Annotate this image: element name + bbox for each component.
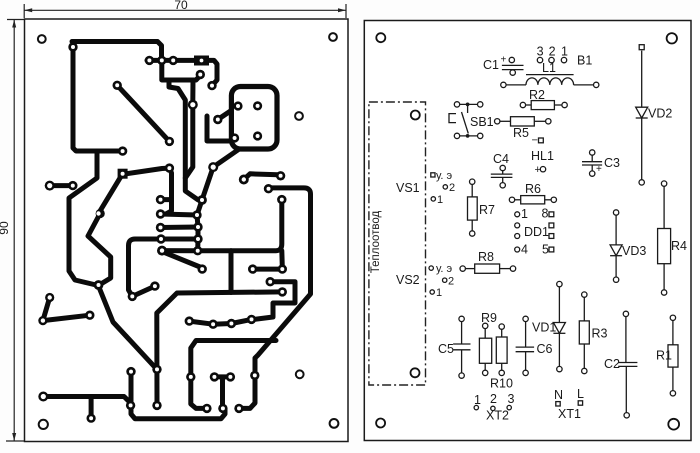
svg-text:1: 1 <box>436 287 442 299</box>
svg-text:Теплоотвод: Теплоотвод <box>370 210 382 273</box>
svg-text:VD3: VD3 <box>622 244 646 258</box>
svg-text:R5: R5 <box>513 126 529 140</box>
svg-text:1: 1 <box>561 45 568 59</box>
svg-text:XT2: XT2 <box>486 409 509 423</box>
svg-text:VD2: VD2 <box>648 107 672 121</box>
svg-text:B1: B1 <box>577 54 592 68</box>
svg-text:VD1: VD1 <box>532 321 556 335</box>
svg-text:HL1: HL1 <box>531 149 554 163</box>
svg-text:у. э: у. э <box>436 170 453 182</box>
svg-text:R10: R10 <box>490 377 513 391</box>
svg-text:R6: R6 <box>525 182 541 196</box>
svg-text:2: 2 <box>549 45 556 59</box>
svg-text:R9: R9 <box>481 311 497 325</box>
svg-text:R2: R2 <box>529 88 545 102</box>
svg-text:R3: R3 <box>592 327 608 341</box>
svg-text:DD1: DD1 <box>524 225 549 239</box>
svg-text:L1: L1 <box>542 61 556 75</box>
svg-text:C2: C2 <box>604 357 620 371</box>
svg-text:2: 2 <box>448 276 454 288</box>
svg-text:R8: R8 <box>478 250 494 264</box>
svg-text:90: 90 <box>0 221 11 235</box>
svg-text:R4: R4 <box>671 239 687 253</box>
svg-text:5: 5 <box>542 243 549 257</box>
svg-text:R7: R7 <box>479 203 495 217</box>
svg-text:VS1: VS1 <box>396 181 420 195</box>
svg-text:C6: C6 <box>537 342 553 356</box>
svg-text:2: 2 <box>449 182 455 194</box>
svg-text:+: + <box>535 164 541 176</box>
svg-text:C4: C4 <box>493 152 509 166</box>
svg-text:+: + <box>596 164 602 175</box>
svg-text:−: − <box>532 135 538 147</box>
svg-text:3: 3 <box>508 392 515 406</box>
svg-text:у. э: у. э <box>436 263 453 275</box>
svg-text:SB1: SB1 <box>470 115 494 129</box>
svg-text:XT1: XT1 <box>558 407 581 421</box>
svg-text:2: 2 <box>490 392 497 406</box>
svg-text:1: 1 <box>521 207 528 221</box>
svg-text:4: 4 <box>521 243 528 257</box>
svg-text:N: N <box>554 388 563 402</box>
svg-text:C3: C3 <box>604 156 620 170</box>
svg-text:8: 8 <box>542 207 549 221</box>
svg-text:1: 1 <box>437 194 443 206</box>
svg-text:C1: C1 <box>483 58 499 72</box>
svg-text:C5: C5 <box>438 342 454 356</box>
svg-text:+: + <box>501 55 507 66</box>
svg-text:70: 70 <box>174 0 188 12</box>
svg-text:1: 1 <box>474 393 481 407</box>
svg-text:L: L <box>577 387 584 401</box>
svg-text:3: 3 <box>537 45 544 59</box>
svg-text:VS2: VS2 <box>396 273 420 287</box>
svg-text:R1: R1 <box>656 349 672 363</box>
